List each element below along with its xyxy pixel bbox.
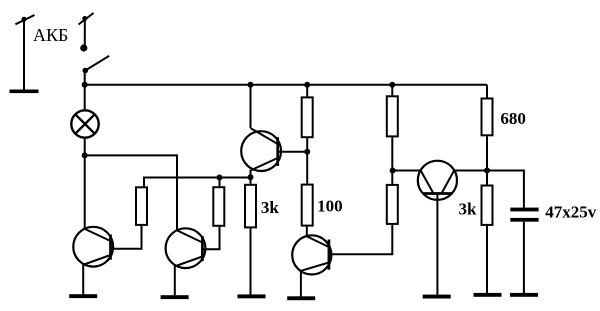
node bus-R4 (304, 82, 310, 88)
switch SA1 (83, 56, 110, 85)
node bus-R6 (389, 82, 395, 88)
wire bus to lamp (84, 85, 86, 110)
resistor R6 (387, 96, 398, 136)
resistor R7 (387, 185, 398, 224)
resistor R5 100 (302, 185, 313, 226)
transistor Q1 (73, 226, 141, 295)
svg-text:АКБ: АКБ (33, 25, 68, 45)
wire C1 to ground (523, 222, 525, 293)
wire R9 to ground (486, 226, 488, 293)
ground G3 (238, 294, 266, 298)
node R8-R9-Q4-C1 (484, 168, 490, 174)
ground G5 (423, 295, 451, 299)
ground G6 (474, 293, 502, 297)
transistor Q4 (418, 161, 487, 295)
ground G4 (287, 296, 315, 300)
ground G7 (510, 293, 538, 297)
resistor R9 3k (482, 186, 493, 225)
svg-text:3k: 3k (459, 199, 478, 218)
wire base rail y=177.5 (144, 178, 251, 187)
node bus-Q3 (248, 82, 254, 88)
svg-text:47x25v: 47x25v (545, 203, 597, 222)
wire bus corner to R8 (486, 85, 488, 98)
node divider-Q4 (390, 168, 396, 174)
wire rail to R2 (219, 178, 221, 187)
battery terminal T2 (79, 13, 94, 52)
svg-text:3k: 3k (261, 198, 280, 217)
wire R8 to R9 (486, 136, 488, 184)
ground G2 (161, 295, 189, 299)
wire R5 to Q5 collector (306, 227, 308, 237)
node bus-switch (82, 82, 88, 88)
transistor Q5 (292, 225, 392, 297)
resistor R1 (136, 187, 147, 225)
resistor R8 680 (482, 99, 493, 136)
wire bus +V (85, 84, 487, 86)
wire R4 to R5 (306, 138, 308, 184)
svg-text:680: 680 (500, 109, 526, 128)
resistor R4 (302, 97, 313, 137)
wire lamp to Q1 collector (84, 139, 86, 229)
node rail-R2 (217, 175, 223, 181)
wire R6 to R7 (391, 137, 393, 184)
wire bus to Q3 collector (250, 85, 252, 128)
node lamp-Q1 (82, 152, 88, 158)
ground G1 (69, 294, 97, 298)
wire bus to R6 (391, 85, 393, 96)
resistor R2 (213, 187, 224, 226)
transistor Q2 (166, 227, 220, 295)
capacitor C1 (510, 208, 538, 222)
node Q3 base divider (304, 149, 310, 155)
node rail-Q3 emitter (248, 174, 254, 180)
wire R3 to ground (250, 228, 252, 294)
lamp HL1 (71, 110, 98, 137)
transistor Q3 (241, 128, 307, 184)
resistor R3 3k (245, 185, 256, 228)
wire Q4 left lead (393, 170, 421, 172)
wire node to Q2 collector (85, 155, 177, 230)
battery terminal T1 АКБ (10, 15, 39, 93)
svg-text:100: 100 (317, 197, 343, 216)
wire bus to R4 (306, 85, 308, 97)
wire node to capacitor C1 (487, 171, 524, 208)
